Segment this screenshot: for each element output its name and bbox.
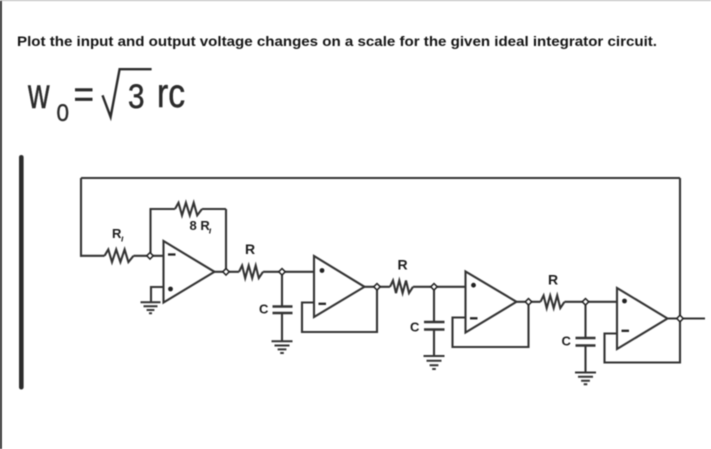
node D (C3 top): [582, 299, 589, 306]
wire left rail down: [80, 178, 82, 257]
node C (C2 top): [431, 284, 438, 291]
wire feedback loop U1 top left: [150, 208, 176, 210]
svg-text:R: R: [245, 241, 255, 257]
wire U1 output to R: [215, 271, 240, 273]
node U3 output: [525, 299, 532, 306]
label Ri: [112, 226, 123, 242]
label 8Ri: [190, 218, 211, 234]
svg-text:C: C: [259, 302, 269, 317]
wire U4 output: [668, 317, 706, 319]
U4 plus dot: [622, 299, 627, 304]
capacitor C1 plates: [273, 307, 293, 314]
wire R1 to U2 input: [263, 271, 314, 273]
wire R2 to U3 input: [413, 286, 466, 288]
op-amp U2 triangle: [314, 256, 365, 317]
U3 plus dot: [471, 283, 476, 288]
wire feedback loop U1 up: [149, 209, 151, 256]
page left border: [0, 0, 2, 449]
formula w0 = sqrt(3) rc: [27, 69, 185, 127]
U2 minus dash: [319, 303, 327, 305]
capacitor C3 bottom lead: [584, 346, 586, 373]
node A input: [147, 253, 154, 260]
wire right rail down to output: [679, 178, 681, 319]
U4 minus dash: [622, 330, 630, 332]
wire R3 to U4 input: [565, 301, 618, 303]
thick left margin bar: [19, 155, 24, 390]
svg-text:rc: rc: [157, 70, 185, 116]
wire U1 plus input: [151, 287, 164, 302]
ground C1: [272, 341, 293, 353]
wire U4 feedback loop: [605, 319, 681, 363]
op-amp U1 triangle: [164, 241, 215, 303]
U1 plus dot: [168, 287, 173, 292]
U1 minus dash: [168, 253, 176, 255]
resistor 8Ri: [175, 203, 202, 216]
U3 minus dash: [470, 317, 478, 319]
wire U2 output to R2: [365, 286, 391, 288]
formula equals: [75, 90, 93, 100]
svg-text:C: C: [410, 320, 420, 335]
capacitor C2 plates: [424, 322, 445, 330]
resistor R2: [390, 281, 413, 294]
svg-text:Plot the input and output volt: Plot the input and output voltage change…: [17, 33, 657, 49]
capacitor C3 plates: [576, 338, 596, 346]
svg-text:R: R: [112, 226, 122, 241]
resistor R3: [541, 296, 565, 309]
resistor R1: [239, 266, 263, 279]
node U2 output: [374, 284, 381, 291]
ground C3: [575, 373, 596, 385]
svg-text:8 R: 8 R: [190, 218, 211, 233]
svg-text:w: w: [27, 71, 49, 118]
wire U3 output to R3: [517, 301, 541, 303]
faint top border: [0, 0, 711, 1]
svg-text:R: R: [548, 272, 558, 288]
node B (C1 top): [279, 269, 286, 276]
resistor Ri: [105, 250, 134, 263]
capacitor C1 top lead: [281, 272, 283, 307]
capacitor C3 top lead: [584, 302, 586, 338]
capacitor C2 bottom lead: [433, 330, 435, 357]
ground U1 plus input: [141, 302, 161, 313]
svg-text:0: 0: [57, 100, 70, 127]
node U4 output: [677, 315, 684, 322]
wire U2 feedback loop: [302, 287, 377, 332]
svg-text:3: 3: [128, 78, 145, 116]
wire Ri to node A: [134, 255, 164, 257]
svg-text:C: C: [562, 334, 572, 349]
capacitor C1 bottom lead: [281, 313, 283, 341]
U2 plus dot: [320, 268, 325, 273]
wire top feedback rail: [81, 177, 680, 179]
wire feedback loop U1 down to output: [225, 209, 227, 272]
op-amp U4 triangle: [617, 288, 668, 349]
op-amp U3 triangle: [466, 272, 517, 333]
formula radical sign: [103, 69, 152, 117]
wire feedback loop U1 top right: [202, 208, 226, 210]
capacitor C2 top lead: [433, 287, 435, 322]
ground C2: [424, 356, 445, 369]
wire U3 feedback loop: [453, 302, 529, 347]
svg-text:R: R: [398, 257, 408, 273]
node U1 output: [223, 269, 230, 276]
wire input row into Ri: [80, 255, 105, 257]
